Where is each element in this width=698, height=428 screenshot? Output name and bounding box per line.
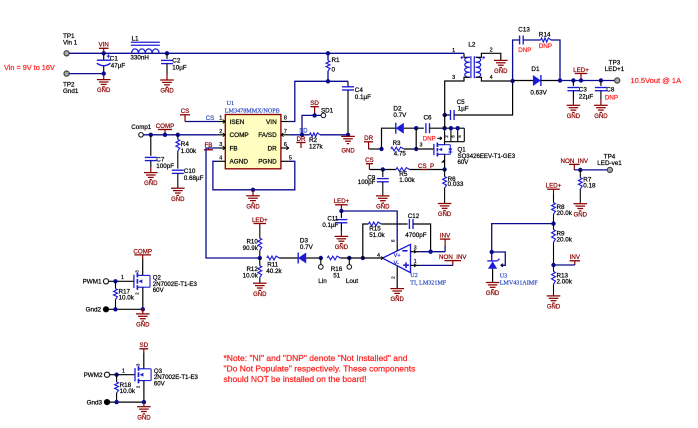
- svg-text:127k: 127k: [309, 144, 324, 151]
- svg-text:0.63V: 0.63V: [530, 90, 547, 97]
- svg-text:100pF: 100pF: [156, 163, 174, 170]
- node Lin junction: [319, 256, 323, 260]
- svg-text:0.033: 0.033: [448, 181, 464, 188]
- svg-text:4: 4: [219, 155, 222, 161]
- svg-text:D1: D1: [531, 66, 540, 73]
- node R9-R13 junction: [551, 263, 555, 267]
- wire Q3 source down: [143, 381, 145, 403]
- wire L2 pin3 down to drain: [444, 115, 446, 128]
- svg-text:0.7V: 0.7V: [393, 112, 407, 119]
- svg-text:1µF: 1µF: [458, 106, 469, 113]
- svg-text:60V: 60V: [154, 380, 166, 387]
- net label COMP: [164, 130, 166, 135]
- node Q3 source junction: [142, 400, 146, 404]
- resistor R3 4.75: [391, 147, 404, 151]
- wire D2 to C6: [404, 127, 424, 129]
- resistor R5 1.00k: [396, 168, 410, 172]
- svg-text:PWM1: PWM1: [83, 278, 102, 285]
- net label DR near D2: [368, 142, 370, 149]
- wire Gnd3 row: [107, 401, 144, 403]
- net label CS at ISEN: [184, 115, 186, 122]
- resistor R18 10.0k: [116, 375, 118, 382]
- wire L2 pin1 lead: [464, 53, 470, 57]
- node D1-R14 junction: [558, 78, 562, 82]
- resistor R4 1.00k: [177, 135, 179, 140]
- ground at L2 pin2: [494, 59, 508, 61]
- node top-rail R1 junction: [326, 51, 330, 55]
- U1 pin 5 PGND: [281, 160, 289, 162]
- ground below C11: [335, 235, 349, 237]
- wire pin1 to NON_INV: [419, 264, 453, 266]
- U2 pin 2 V- stub: [396, 266, 398, 288]
- svg-text:1: 1: [414, 259, 417, 265]
- svg-text:LED+: LED+: [252, 217, 268, 224]
- resistor R1 0: [327, 53, 329, 60]
- L2 secondary winding: [476, 57, 481, 77]
- svg-text:4.75: 4.75: [394, 151, 407, 158]
- ground below C1: [103, 74, 105, 80]
- net label LED+ output: [580, 74, 582, 81]
- resistor R16 51: [327, 256, 340, 260]
- net label LED+ at R8: [553, 189, 555, 193]
- node secondary junction: [510, 79, 514, 83]
- svg-text:FB: FB: [230, 145, 238, 152]
- svg-text:Gnd3: Gnd3: [87, 399, 103, 406]
- op-amp U2 LM321: [382, 244, 410, 272]
- resistor R2 127k: [310, 133, 321, 137]
- U1 pin 4 AGND: [217, 160, 225, 162]
- svg-text:Lout: Lout: [346, 278, 359, 285]
- capacitor C9 100pF: [382, 170, 384, 178]
- svg-text:LED-ve1: LED-ve1: [597, 160, 622, 167]
- svg-text:"Do Not Populate" respectively: "Do Not Populate" respectively. These co…: [224, 364, 416, 374]
- net label CS near C9: [368, 164, 370, 170]
- svg-text:GND: GND: [486, 291, 500, 297]
- wire C6 to drain rail: [430, 127, 465, 129]
- svg-text:C8: C8: [606, 86, 615, 93]
- wire COMP to Q2 drain: [142, 259, 144, 275]
- U2 pin 1 non-inverting: [411, 264, 420, 266]
- svg-text:7: 7: [284, 129, 287, 135]
- net label LED+ at C11: [340, 205, 342, 211]
- resistor R9 20.0k: [552, 230, 556, 243]
- Q1 mosfet symbol: [433, 144, 435, 155]
- wire output rail: [560, 80, 615, 82]
- node D2-C6 junction: [414, 126, 418, 130]
- U1 pin 7 FA/SD: [281, 134, 289, 136]
- node C7 junction: [149, 133, 153, 137]
- svg-text:10.0k: 10.0k: [119, 295, 135, 302]
- svg-text:4700pF: 4700pF: [405, 232, 427, 239]
- node COMP flag junction: [163, 133, 167, 137]
- capacitor C4 0.1uF: [347, 81, 349, 87]
- node C1 bottom junction: [102, 71, 106, 75]
- svg-text:Lin: Lin: [318, 278, 327, 285]
- svg-text:AGND: AGND: [230, 159, 249, 166]
- net label NON_INV at TP4: [573, 164, 575, 170]
- capacitor C3 22uF: [572, 81, 574, 86]
- wire R16 to Lout: [340, 257, 362, 259]
- wire snubber branch up: [513, 40, 520, 81]
- node C9 junction: [381, 167, 385, 171]
- svg-text:10µF: 10µF: [172, 64, 187, 71]
- svg-text:NON_INV: NON_INV: [561, 158, 589, 165]
- svg-text:3: 3: [414, 245, 417, 251]
- wire R15 to C12: [381, 223, 407, 225]
- resistor R17 10.0k: [115, 281, 117, 288]
- node LED+ junction: [579, 78, 583, 82]
- wire PWM1 to gate: [109, 280, 134, 282]
- svg-text:GND: GND: [567, 114, 581, 120]
- svg-text:10.5Vout @ 1A: 10.5Vout @ 1A: [631, 76, 682, 85]
- capacitor C1 47uF polarized: [103, 53, 105, 60]
- ground below R7: [574, 203, 588, 205]
- node Q2 source junction: [141, 307, 145, 311]
- test point Lin: [320, 258, 322, 265]
- svg-text:GND: GND: [391, 297, 405, 303]
- node R18 bottom junction: [114, 400, 118, 404]
- svg-text:GND: GND: [594, 114, 608, 120]
- node R3 left junction: [379, 147, 383, 151]
- svg-text:100pF: 100pF: [358, 179, 376, 186]
- capacitor C11 0.1uF: [340, 211, 342, 218]
- net label DR at pin6: [300, 143, 302, 149]
- svg-text:NON_INV: NON_INV: [439, 254, 467, 261]
- wire CS to ISEN: [185, 121, 217, 123]
- L2 core lines: [470, 56, 472, 78]
- wire D2-R3 vertical tie: [415, 128, 417, 149]
- svg-text:DR: DR: [364, 135, 373, 142]
- capacitor C8 DNP: [600, 81, 602, 86]
- U1 pin 3 FB: [217, 147, 225, 149]
- ground below C7: [144, 172, 158, 174]
- svg-text:should NOT be installed on the: should NOT be installed on the board!: [224, 374, 367, 384]
- U3 reference loop: [492, 252, 506, 265]
- svg-text:3: 3: [219, 142, 222, 148]
- svg-text:DR: DR: [267, 145, 277, 152]
- svg-text:U3: U3: [500, 273, 507, 279]
- svg-text:C3: C3: [579, 86, 588, 93]
- svg-text:LMV431AIMF: LMV431AIMF: [500, 280, 539, 286]
- wire COMP row: [143, 134, 217, 136]
- wire R1 bottom to U1 VIN: [289, 81, 328, 121]
- svg-text:1.00k: 1.00k: [181, 148, 197, 155]
- ground below R12: [253, 282, 267, 284]
- node R7 junction: [578, 168, 582, 172]
- svg-text:V+: V+: [394, 253, 401, 259]
- svg-text:FA/SD: FA/SD: [258, 132, 277, 139]
- svg-text:6: 6: [284, 142, 287, 148]
- wire R5 to CS_P node: [410, 169, 445, 171]
- svg-text:U1: U1: [227, 100, 235, 107]
- node C11 junction: [339, 209, 343, 213]
- resistor R15 51.0k: [368, 222, 381, 226]
- wire C13 to R14: [523, 39, 541, 41]
- wire FB net down: [206, 148, 260, 258]
- ground below U3: [486, 282, 500, 284]
- svg-text:4: 4: [490, 75, 493, 81]
- svg-text:*Note: "NI" and "DNP" denote ": *Note: "NI" and "DNP" denote "Not Instal…: [224, 353, 408, 363]
- svg-text:DNP: DNP: [605, 94, 618, 101]
- wire R3 to gate: [404, 148, 434, 150]
- op IC U1 LM3478MMX/NOPB body: [225, 115, 281, 169]
- resistor R12 10.0k: [258, 266, 262, 278]
- svg-text:10.0k: 10.0k: [243, 272, 259, 279]
- node R17 bottom junction: [113, 307, 117, 311]
- L2 primary winding: [465, 57, 470, 77]
- svg-text:VIN: VIN: [99, 42, 109, 49]
- svg-text:U2: U2: [410, 273, 417, 279]
- wire R1 bottom to C4: [328, 80, 348, 82]
- wire C12 to INV node: [413, 224, 431, 252]
- node C5 left junction: [443, 113, 447, 117]
- svg-text:PWM2: PWM2: [84, 372, 103, 379]
- net label INV at op-amp: [444, 239, 446, 245]
- svg-text:COMP: COMP: [156, 123, 175, 130]
- svg-text:SD: SD: [310, 100, 319, 107]
- svg-text:1: 1: [219, 116, 222, 122]
- svg-text:51: 51: [333, 272, 341, 279]
- ground below C8: [594, 104, 608, 106]
- node R17 top junction: [113, 279, 117, 283]
- node R3 right junction: [414, 147, 418, 151]
- resistor R13 2.00k: [552, 271, 556, 284]
- node R18 top junction: [114, 373, 118, 377]
- node C3 junction: [571, 78, 575, 82]
- resistor R10 90.9k: [259, 225, 261, 238]
- ground below U2: [390, 288, 404, 290]
- svg-text:Comp1: Comp1: [131, 124, 152, 131]
- svg-text:20.0k: 20.0k: [557, 210, 573, 217]
- resistor R6 0.033: [443, 177, 447, 188]
- svg-text:Gnd1: Gnd1: [63, 88, 79, 95]
- svg-text:GND: GND: [494, 69, 508, 75]
- svg-text:8: 8: [284, 116, 287, 122]
- svg-text:47µF: 47µF: [111, 62, 126, 69]
- ground below R6: [438, 203, 452, 205]
- node L1-C2 junction: [165, 51, 169, 55]
- svg-text:L2: L2: [468, 42, 476, 49]
- node VIN junction: [102, 51, 106, 55]
- net label INV at R13: [574, 261, 576, 265]
- svg-text:COMP: COMP: [230, 132, 249, 139]
- node R4 junction: [176, 133, 180, 137]
- net label SD near SD1: [314, 107, 316, 116]
- U1 pin 2 COMP: [217, 134, 225, 136]
- svg-text:GND: GND: [335, 245, 349, 251]
- resistor R7 0.18: [579, 170, 581, 178]
- svg-text:GND: GND: [438, 212, 452, 218]
- svg-text:0.1µF: 0.1µF: [355, 94, 371, 101]
- svg-text:TI, LM321MF: TI, LM321MF: [410, 281, 446, 287]
- node SD flag junction: [312, 113, 316, 117]
- svg-text:3: 3: [420, 142, 423, 148]
- svg-text:GND: GND: [547, 305, 561, 311]
- node INV junction: [428, 250, 432, 254]
- svg-text:CS: CS: [365, 157, 374, 164]
- svg-text:51.0k: 51.0k: [369, 232, 385, 239]
- svg-text:R3: R3: [393, 140, 401, 147]
- svg-text:10.0k: 10.0k: [120, 388, 136, 395]
- svg-text:1: 1: [121, 275, 124, 281]
- node Q1 drain junctions: [442, 126, 446, 130]
- U1 pin 6 DR: [281, 147, 289, 149]
- wire LED+ to op-amp V+: [341, 211, 397, 243]
- wire Lout to op-amp: [363, 257, 383, 259]
- wire NON_INV row to TP4: [574, 169, 607, 171]
- svg-text:3: 3: [452, 75, 455, 81]
- svg-text:2.00k: 2.00k: [557, 278, 573, 285]
- wire FA/SD to R2: [289, 134, 310, 136]
- svg-text:0.18: 0.18: [583, 182, 596, 189]
- node U1 ground junction: [251, 188, 255, 192]
- svg-text:LED+: LED+: [573, 67, 589, 74]
- svg-text:GND: GND: [136, 323, 150, 329]
- wire SD to Q3 drain: [143, 353, 145, 369]
- node FB divider junction: [258, 256, 262, 260]
- transistor Q1 SQ3426EEV: [444, 128, 446, 142]
- svg-text:DNP: DNP: [539, 43, 552, 50]
- net label VIN: [103, 48, 105, 53]
- svg-text:LM3478MMX/NOPB: LM3478MMX/NOPB: [225, 109, 280, 115]
- capacitor C7 100pF: [150, 135, 152, 156]
- wire R14 down to output: [551, 40, 560, 81]
- wire R11 to D3: [279, 257, 298, 259]
- svg-text:C2: C2: [172, 57, 181, 64]
- node R8-R9 junction: [551, 221, 555, 225]
- wire VIN top rail: [69, 52, 464, 54]
- svg-text:1: 1: [452, 48, 455, 54]
- svg-text:4: 4: [377, 253, 380, 259]
- node CS_P junction: [442, 167, 446, 171]
- svg-text:LED+1: LED+1: [605, 66, 625, 73]
- ground below C3: [567, 104, 581, 106]
- svg-text:Gnd2: Gnd2: [86, 307, 102, 314]
- wire C5 to secondary node: [454, 81, 512, 115]
- svg-text:INV: INV: [570, 254, 581, 261]
- ground below C10: [171, 187, 185, 189]
- svg-text:V-: V-: [394, 261, 399, 267]
- svg-text:330nH: 330nH: [130, 54, 149, 61]
- ground below Q3: [143, 402, 145, 407]
- svg-text:C6: C6: [424, 115, 433, 122]
- shunt regulator U3 LMV431AIMF: [490, 250, 494, 254]
- wire Q2 source down: [142, 287, 144, 309]
- svg-text:GND: GND: [137, 415, 151, 421]
- svg-text:40.2k: 40.2k: [266, 268, 282, 275]
- svg-text:0.7V: 0.7V: [300, 244, 314, 251]
- capacitor C2 10uF: [166, 53, 168, 59]
- wire L2 pin2 lead to gnd: [476, 53, 501, 60]
- transistor Q2 2N7002E: [133, 275, 135, 288]
- wire R15 branch: [363, 224, 369, 258]
- ground below U1: [252, 190, 254, 196]
- wire junction to INV flag: [554, 264, 575, 266]
- svg-text:PGND: PGND: [258, 159, 277, 166]
- svg-text:1.00k: 1.00k: [399, 177, 415, 184]
- svg-text:90.9k: 90.9k: [243, 245, 259, 252]
- svg-text:ISEN: ISEN: [230, 119, 245, 126]
- U1 pin 8 VIN: [281, 121, 289, 123]
- ground below Q2: [142, 309, 144, 314]
- svg-text:Vin 1: Vin 1: [63, 40, 78, 47]
- capacitor C10 0.68uF: [172, 169, 184, 171]
- wire Gnd2 row: [106, 308, 143, 310]
- node R2-C4 gnd junction: [346, 133, 350, 137]
- svg-text:GND: GND: [171, 197, 185, 203]
- wire Q1 source down: [444, 154, 446, 169]
- node R15 junction: [361, 256, 365, 260]
- node R1 bottom junction: [326, 79, 330, 83]
- svg-text:60V: 60V: [153, 287, 165, 294]
- transistor Q3 2N7002E: [134, 368, 136, 381]
- ground below C2: [160, 79, 174, 81]
- wire CS row: [369, 169, 396, 171]
- svg-text:DNP: DNP: [423, 135, 436, 142]
- svg-text:LED+: LED+: [546, 183, 562, 190]
- svg-text:1: 1: [122, 368, 125, 374]
- svg-text:C10: C10: [184, 168, 196, 175]
- net label LED+ at R10: [259, 224, 261, 226]
- svg-text:GND: GND: [97, 88, 111, 94]
- wire L2 pin3 lead: [445, 77, 470, 115]
- net label NON_INV at op-amp: [452, 261, 454, 266]
- svg-text:VIN: VIN: [266, 119, 277, 126]
- svg-text:INV: INV: [440, 233, 451, 240]
- ground below C9: [376, 195, 390, 197]
- wire SD1 branch: [302, 115, 321, 134]
- svg-text:GND: GND: [376, 205, 390, 211]
- svg-text:22µF: 22µF: [579, 93, 594, 100]
- ground below R13: [547, 295, 561, 297]
- svg-text:0: 0: [332, 67, 336, 74]
- svg-text:20.0k: 20.0k: [557, 236, 573, 243]
- svg-text:2: 2: [219, 129, 222, 135]
- svg-text:GND: GND: [246, 204, 260, 210]
- wire AGND PGND ground loop: [213, 161, 295, 190]
- svg-text:GND: GND: [574, 212, 588, 218]
- wire R2 to gnd node: [320, 134, 348, 136]
- svg-text:C13: C13: [518, 27, 530, 34]
- svg-text:60V: 60V: [458, 159, 470, 166]
- node Lout junction: [347, 256, 351, 260]
- svg-text:2: 2: [490, 48, 493, 54]
- ground below C4: [341, 135, 355, 137]
- wire PWM2 to gate: [110, 374, 135, 376]
- svg-text:5: 5: [289, 155, 292, 161]
- U2 pin 3 inverting: [411, 251, 420, 253]
- resistor R11 40.2k: [267, 256, 279, 260]
- wire U3 anode down: [492, 269, 494, 283]
- wire DR to R3 node: [369, 148, 382, 150]
- svg-text:GND: GND: [341, 149, 355, 155]
- svg-text:DR: DR: [297, 136, 306, 143]
- wire pin3 to INV: [419, 251, 445, 253]
- node C8 junction: [599, 78, 603, 82]
- wire D2 branch up: [382, 128, 396, 149]
- wire TP2 to C1 bottom: [69, 73, 103, 75]
- svg-text:Vin = 9V to 16V: Vin = 9V to 16V: [4, 63, 55, 72]
- svg-text:0.1µF: 0.1µF: [322, 222, 338, 229]
- svg-text:LED+: LED+: [334, 198, 350, 205]
- svg-text:CS: CS: [181, 108, 190, 115]
- svg-text:L1: L1: [132, 36, 140, 43]
- resistor R8 20.0k: [553, 193, 555, 203]
- test point Lout: [348, 258, 350, 265]
- svg-text:R1: R1: [332, 57, 341, 64]
- svg-text:GND: GND: [253, 292, 267, 298]
- node SD junction: [300, 133, 304, 137]
